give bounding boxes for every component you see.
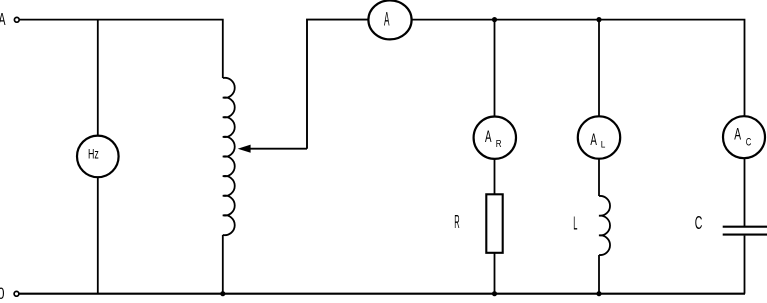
ammeter A_L <box>578 116 620 158</box>
terminal A <box>14 17 19 22</box>
wire R branch middle <box>494 159 496 194</box>
svg-text:C: C <box>746 136 752 148</box>
svg-text:0: 0 <box>0 285 5 303</box>
wire bottom rail <box>19 293 745 295</box>
wire top-right rail <box>412 20 745 117</box>
ammeter A_C <box>723 116 765 158</box>
wire Hz branch lower <box>97 177 99 294</box>
resistor R <box>486 194 502 253</box>
svg-text:A: A <box>590 130 597 149</box>
svg-text:L: L <box>573 213 577 233</box>
wire C branch lower <box>744 236 746 294</box>
svg-text:R: R <box>454 212 459 232</box>
junction coil-bottom <box>220 291 225 296</box>
wire R branch upper <box>494 20 496 117</box>
wire L branch upper <box>598 20 600 117</box>
wire L branch middle <box>598 159 600 196</box>
wire Hz branch upper <box>97 20 99 137</box>
svg-text:R: R <box>496 139 502 150</box>
svg-text:C: C <box>695 213 703 233</box>
wire R branch lower <box>494 253 496 294</box>
frequency meter Hz <box>77 136 119 178</box>
junction top R-branch <box>492 17 497 22</box>
ammeter A <box>368 0 411 39</box>
wire top-left rail <box>20 20 223 78</box>
svg-text:A: A <box>0 9 6 29</box>
svg-text:A: A <box>384 9 390 31</box>
wire C branch middle <box>744 158 746 226</box>
wire inductor bottom lead <box>222 235 224 294</box>
wire tap riser <box>307 20 369 149</box>
ammeter A_R <box>474 117 516 159</box>
junction bottom L-branch <box>596 291 601 296</box>
junction bottom R-branch <box>492 291 497 296</box>
svg-text:Hz: Hz <box>88 147 99 162</box>
svg-text:L: L <box>601 139 606 150</box>
inductor L <box>599 196 610 255</box>
wiper arrow of variable inductor <box>238 145 307 153</box>
svg-text:A: A <box>734 125 741 144</box>
capacitor C <box>723 227 767 235</box>
svg-text:A: A <box>485 128 492 146</box>
variable inductor T1 winding <box>223 78 235 235</box>
terminal 0 <box>14 291 19 296</box>
wire L branch lower <box>598 255 600 294</box>
junction top L-branch <box>596 17 601 22</box>
